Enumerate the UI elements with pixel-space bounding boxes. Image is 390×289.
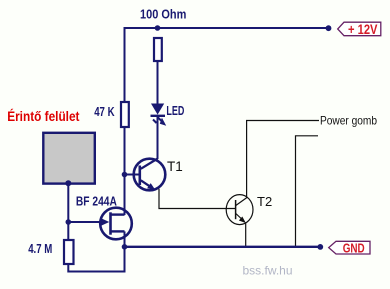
node: gate junction — [66, 219, 72, 225]
svg-text:bss.fw.hu: bss.fw.hu — [243, 264, 293, 278]
wire: LED to T1 collector — [157, 116, 159, 159]
svg-text:100 Ohm: 100 Ohm — [140, 6, 186, 21]
flag: GND — [329, 241, 370, 256]
node: FET source / ground junction — [122, 244, 128, 250]
node: junction at top of 100 Ohm resistor — [155, 25, 161, 31]
wire: +12V top rail — [125, 28, 330, 103]
svg-text:BF 244A: BF 244A — [76, 194, 117, 209]
flag: +12V supply — [338, 22, 381, 37]
node: touch plate terminal — [65, 180, 71, 186]
svg-text:47 K: 47 K — [94, 104, 115, 119]
node: +12V terminal dot — [326, 25, 332, 31]
svg-text:T2: T2 — [257, 194, 272, 209]
svg-text:LED: LED — [166, 103, 184, 118]
svg-text:4.7 M: 4.7 M — [28, 241, 52, 256]
wire: ground bus — [125, 246, 321, 248]
wire: T1 emitter to T2 base — [159, 189, 236, 209]
JFET BF 244A — [100, 208, 132, 247]
node: GND terminal dot — [317, 244, 323, 250]
svg-text:Érintő felület: Érintő felület — [7, 109, 80, 124]
wire: plate down to 4.7M resistor — [67, 183, 69, 241]
wire: Power gomb lower lead down to ground bus — [296, 136, 319, 246]
touch plate (Érintő felület) — [43, 133, 95, 184]
svg-text:+ 12V: + 12V — [348, 22, 378, 37]
resistor 47 K body — [121, 102, 129, 127]
wire: 4.7M bottom to source junction — [68, 247, 124, 272]
wire: 47K down to FET drain through T1 base junction — [124, 126, 126, 215]
wire: 100 Ohm to LED — [157, 60, 159, 105]
transistor T2 (NPN) — [226, 195, 253, 225]
node: T1 base junction — [122, 172, 128, 178]
svg-text:GND: GND — [343, 241, 365, 256]
transistor T1 (NPN) — [125, 159, 165, 191]
LED D1 — [151, 104, 167, 126]
svg-text:Power gomb: Power gomb — [320, 114, 377, 128]
wire: gate lead to FET — [68, 221, 103, 223]
wire: T2 collector up to Power gomb upper lead — [247, 121, 319, 199]
resistor 100 Ohm body — [154, 38, 162, 61]
wire: T2 emitter to ground bus — [245, 223, 247, 247]
resistor 4.7 M body — [64, 240, 74, 264]
svg-text:T1: T1 — [167, 159, 183, 174]
